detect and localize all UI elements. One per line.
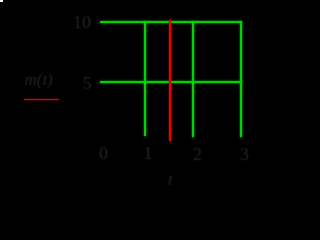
x-axis label 2 [193, 145, 202, 163]
level-5 horizontal green line [100, 81, 242, 83]
label m(t) [25, 71, 53, 88]
red underline under m(t) [24, 99, 59, 101]
y-axis label 5 [83, 74, 92, 92]
white cursor block top-left corner [0, 0, 3, 2]
green vertical at t=1 [144, 21, 146, 136]
y-axis label 10 [73, 13, 91, 31]
level-10 horizontal green line [100, 21, 242, 23]
green vertical at t=2 [192, 21, 194, 137]
x-axis title t [168, 171, 173, 188]
green vertical at t=3 [240, 21, 242, 137]
x-axis label 1 [144, 144, 153, 162]
red vertical marker line [169, 20, 171, 141]
x-axis label 3 [240, 145, 249, 163]
x-axis label 0 [99, 144, 108, 162]
